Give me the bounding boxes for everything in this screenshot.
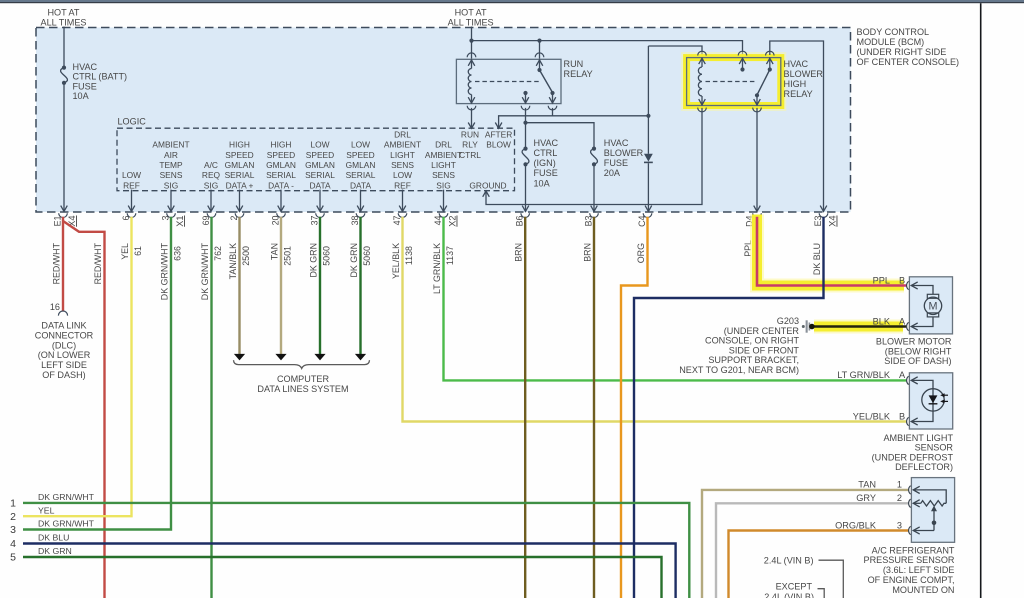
svg-text:ALL TIMES: ALL TIMES	[448, 17, 494, 27]
relay K2 fixed contact stub	[739, 58, 746, 72]
sensor: A/C refrigerant pressure sensor box	[911, 478, 954, 543]
wire: K2 switch output to pin D4	[756, 108, 758, 211]
svg-text:SIG: SIG	[436, 180, 450, 190]
svg-text:SPEED: SPEED	[225, 150, 253, 160]
svg-text:TAN: TAN	[270, 243, 280, 260]
svg-text:BLOW: BLOW	[486, 140, 511, 150]
label: EXCEPT 2.4L (VIN B) variant tag	[764, 581, 824, 598]
svg-text:OF DASH): OF DASH)	[42, 370, 85, 380]
diode CR1	[644, 154, 653, 163]
svg-text:AMBIENT: AMBIENT	[152, 140, 189, 150]
svg-text:(BELOW RIGHT: (BELOW RIGHT	[885, 346, 952, 356]
pin B6 at BCM connector	[515, 213, 530, 226]
svg-text:A: A	[899, 316, 906, 326]
wire: TAN to pressure sensor pin 1	[702, 490, 908, 598]
pin B3 at BCM connector	[583, 213, 598, 226]
pin 38 at BCM connector	[350, 213, 365, 225]
svg-text:B: B	[899, 411, 905, 421]
connector arcs at K2 terminals	[698, 51, 774, 112]
pin E1 (X4) at BCM connector	[52, 213, 77, 227]
svg-text:DRL: DRL	[435, 140, 452, 150]
svg-text:2.4L (VIN B): 2.4L (VIN B)	[764, 592, 814, 598]
svg-text:LIGHT: LIGHT	[431, 160, 456, 170]
wire: logic output stub	[402, 190, 404, 211]
svg-text:SENS: SENS	[432, 170, 455, 180]
node: HOT AT ALL TIMES (relay feed)	[448, 7, 494, 27]
svg-text:BODY CONTROL: BODY CONTROL	[857, 27, 930, 37]
svg-text:DK GRN/WHT: DK GRN/WHT	[38, 519, 95, 529]
page edge rule (right)	[980, 3, 982, 598]
fuse: HVAC CTRL (BATT) FUSE 10A	[61, 66, 68, 86]
wire: relay feed vertical into RUN RELAY coil	[471, 27, 473, 59]
svg-text:HVAC: HVAC	[73, 62, 98, 72]
svg-text:SUPPORT BRACKET,: SUPPORT BRACKET,	[708, 355, 799, 365]
svg-text:DK BLU: DK BLU	[812, 243, 822, 275]
svg-text:762: 762	[213, 246, 223, 261]
svg-text:SPEED: SPEED	[306, 150, 334, 160]
logic pin label: DRL AMB LIGHT SENS SIG	[425, 140, 462, 191]
svg-text:LOGIC: LOGIC	[118, 117, 147, 127]
ambient light sensor pin B	[853, 411, 933, 426]
svg-text:GMLAN: GMLAN	[225, 160, 255, 170]
wire: RUN RELAY coil low side to LOGIC RUN RLY CTRL	[471, 108, 473, 128]
pin D4 at BCM connector	[745, 213, 762, 227]
svg-text:AFTER: AFTER	[485, 129, 512, 139]
svg-text:AMBIENT: AMBIENT	[384, 140, 421, 150]
label: wire TAN circuit 2501	[270, 243, 293, 266]
junction: feed split at coil	[469, 39, 473, 43]
svg-text:20A: 20A	[604, 168, 621, 178]
svg-text:DATA LINES SYSTEM: DATA LINES SYSTEM	[257, 384, 348, 394]
svg-text:PRESSURE SENSOR: PRESSURE SENSOR	[864, 555, 955, 565]
module: BODY CONTROL MODULE (BCM) dashed outline	[36, 28, 851, 213]
svg-text:ORG/BLK: ORG/BLK	[835, 520, 877, 530]
svg-text:SIDE OF FRONT: SIDE OF FRONT	[729, 345, 800, 355]
label: BLOWER MOTOR location	[876, 337, 952, 367]
relay K2 coil	[698, 58, 705, 106]
pressure sensor wiper arrow	[931, 506, 937, 531]
highlight: yellow marker along BLK ground wire	[814, 320, 903, 334]
wire: LT GRN/BLK 1137 pin 44 to ambient light sensor pin A	[444, 217, 907, 381]
wire: feed drop to RUN RELAY switch	[539, 41, 541, 59]
label: wire LT GRN/BLK circuit 1137	[432, 243, 455, 294]
wire: logic output stub	[170, 190, 172, 211]
label: HVAC BLOWER HIGH RELAY	[784, 59, 824, 99]
wire: DK BLU pin E3 to bottom of page	[634, 217, 824, 598]
svg-text:HOT AT: HOT AT	[47, 7, 79, 17]
svg-text:DK GRN: DK GRN	[38, 546, 72, 556]
svg-text:61: 61	[133, 246, 143, 256]
svg-text:REF: REF	[123, 180, 140, 190]
svg-text:3: 3	[10, 524, 16, 536]
svg-text:2500: 2500	[241, 246, 251, 266]
svg-text:E1: E1	[52, 215, 62, 226]
pin 3 (X1) at BCM connector	[160, 213, 185, 227]
wire: DK GRN/WHT 762 pin 69 to bottom of page	[210, 217, 212, 598]
label: wire ORG	[636, 243, 646, 263]
label: HVAC BLOWER FUSE 20A	[604, 138, 644, 178]
svg-text:NEXT TO G201, NEAR BCM): NEXT TO G201, NEAR BCM)	[679, 365, 799, 375]
wire: blower fuse output to pin B3	[593, 166, 595, 210]
svg-text:69: 69	[201, 215, 211, 225]
svg-text:CTRL: CTRL	[459, 150, 481, 160]
svg-text:X4: X4	[828, 216, 838, 227]
connector: DLC pin 16	[50, 302, 68, 316]
logic pin label: RUN RLY CTRL	[459, 129, 481, 159]
highlight: yellow marker around HVAC BLOWER HIGH RELAY	[687, 58, 781, 106]
label: wire DK GRN/WHT circuit 636	[160, 242, 183, 300]
svg-text:636: 636	[173, 246, 183, 261]
svg-text:RELAY: RELAY	[564, 69, 593, 79]
svg-text:TAN/BLK: TAN/BLK	[228, 243, 238, 279]
motor B1: blower motor box	[909, 277, 952, 334]
svg-text:(IGN): (IGN)	[534, 158, 556, 168]
svg-text:DATA: DATA	[350, 180, 372, 190]
svg-text:LOW: LOW	[310, 140, 329, 150]
svg-text:RLY: RLY	[462, 140, 478, 150]
logic pin label: HS GMLAN DATA +	[225, 140, 255, 191]
pin 2 at BCM connector	[229, 213, 244, 220]
svg-text:B3: B3	[583, 215, 593, 226]
svg-text:X2: X2	[448, 216, 458, 227]
svg-text:4: 4	[10, 538, 16, 550]
svg-text:REF: REF	[394, 180, 411, 190]
svg-text:A/C: A/C	[204, 160, 218, 170]
wire: blower-high-relay coil feed / diode rail	[648, 46, 702, 57]
svg-text:37: 37	[309, 215, 319, 225]
label: G203 location note	[679, 316, 799, 375]
svg-text:G203: G203	[777, 316, 799, 326]
svg-text:RELAY: RELAY	[784, 89, 813, 99]
svg-text:LOW: LOW	[351, 140, 370, 150]
wire: fuse output down to pin E1	[63, 85, 65, 211]
svg-text:DK BLU: DK BLU	[38, 533, 69, 543]
svg-text:(DLC): (DLC)	[52, 340, 76, 350]
svg-text:(UNDER RIGHT SIDE: (UNDER RIGHT SIDE	[857, 47, 947, 57]
svg-text:LEFT SIDE: LEFT SIDE	[41, 360, 87, 370]
wire: feed bus to HVAC BLOWER HIGH RELAY contact	[472, 41, 743, 57]
wire: logic output stub	[319, 190, 321, 211]
wire: TAN 2501 pin 20 to data lines	[280, 217, 282, 354]
svg-text:A/C REFRIGERANT: A/C REFRIGERANT	[872, 545, 955, 555]
logic pin label: LS GMLAN DATA	[305, 140, 335, 191]
svg-text:2501: 2501	[283, 246, 293, 266]
svg-text:ORG: ORG	[636, 243, 646, 263]
ambient light sensor pin A	[837, 370, 933, 389]
svg-text:1: 1	[897, 480, 902, 490]
svg-text:DK GRN/WHT: DK GRN/WHT	[200, 242, 210, 300]
svg-text:HIGH: HIGH	[229, 140, 250, 150]
label: wire BRN	[583, 243, 593, 262]
wire: diode cathode to pin C4	[647, 163, 649, 210]
label: A/C REFRIGERANT PRESSURE SENSOR location	[864, 545, 955, 595]
logic pin label: DRL AMB LIGHT SENS LOW REF	[384, 129, 421, 190]
svg-text:1: 1	[10, 498, 16, 510]
logic pin label: LS GMLAN DATA 2	[346, 140, 376, 191]
fuse: HVAC CTRL (IGN) FUSE 10A	[522, 147, 529, 167]
svg-text:5: 5	[10, 552, 16, 564]
svg-text:GRY: GRY	[856, 493, 876, 503]
svg-text:DATA +: DATA +	[226, 180, 254, 190]
svg-text:DATA: DATA	[309, 180, 331, 190]
svg-text:BLK: BLK	[873, 316, 891, 326]
svg-text:5060: 5060	[362, 246, 372, 266]
blower motor pin A	[873, 316, 933, 330]
svg-text:M: M	[929, 301, 938, 313]
svg-text:TAN: TAN	[858, 480, 876, 490]
node 2: connector wire YEL	[10, 505, 54, 522]
svg-text:OF ENGINE COMPT,: OF ENGINE COMPT,	[868, 575, 955, 585]
label: wire BRN	[514, 243, 524, 262]
wire: RUN RELAY second output stub	[552, 108, 554, 116]
svg-text:CTRL (BATT): CTRL (BATT)	[73, 72, 128, 82]
logic pin label: HS GMLAN DATA -	[266, 140, 296, 191]
svg-text:HIGH: HIGH	[784, 79, 807, 89]
svg-text:E3: E3	[813, 215, 823, 226]
svg-text:MOUNTED ON: MOUNTED ON	[892, 585, 954, 595]
svg-text:FUSE: FUSE	[604, 158, 628, 168]
pin 37 at BCM connector	[309, 213, 324, 225]
pressure sensor pin 3	[835, 520, 934, 534]
label: 2.4L (VIN B) variant tag	[764, 555, 844, 598]
svg-text:YEL: YEL	[120, 243, 130, 260]
wire: DK GRN 5060 pin 38 to data lines	[359, 217, 361, 354]
svg-text:BLOWER: BLOWER	[784, 69, 824, 79]
svg-text:LOW: LOW	[393, 170, 412, 180]
label: BCM name	[857, 27, 960, 67]
label: wire YEL/BLK circuit 1138	[391, 243, 414, 279]
svg-text:HOT AT: HOT AT	[455, 7, 487, 17]
svg-text:LIGHT: LIGHT	[390, 150, 415, 160]
svg-text:3: 3	[897, 520, 902, 530]
svg-text:BRN: BRN	[583, 243, 593, 262]
svg-text:GROUND: GROUND	[469, 180, 506, 190]
wire: K2 switch common up-and-over to pin E3	[770, 41, 824, 211]
svg-text:PPL: PPL	[873, 275, 890, 285]
brace: computer data lines system	[234, 360, 370, 368]
svg-text:GMLAN: GMLAN	[346, 160, 376, 170]
wire: RUN RELAY output to fuses (ignition feed)	[525, 108, 527, 147]
label: wire DK GRN/WHT circuit 762	[200, 242, 223, 300]
svg-text:GMLAN: GMLAN	[305, 160, 335, 170]
relay K2 switch	[754, 58, 773, 106]
wire: logic output stub	[210, 190, 212, 211]
photodiode symbol	[922, 389, 948, 411]
svg-text:REQ: REQ	[202, 170, 221, 180]
svg-text:5060: 5060	[322, 246, 332, 266]
svg-text:HIGH: HIGH	[271, 140, 292, 150]
logic pin label: GROUND	[469, 180, 506, 190]
svg-text:TEMP: TEMP	[159, 160, 183, 170]
wire: BRN pin B3 to bottom of page	[593, 217, 595, 598]
wire: IGN fuse output to pin B6	[525, 166, 527, 210]
pin 20 at BCM connector	[270, 213, 285, 225]
svg-text:AMBIENT: AMBIENT	[425, 150, 462, 160]
svg-text:FUSE: FUSE	[73, 81, 97, 91]
svg-text:1138: 1138	[404, 246, 414, 265]
svg-text:DATA -: DATA -	[268, 180, 294, 190]
node: HOT AT ALL TIMES (battery feed, left)	[41, 7, 87, 27]
svg-text:(UNDER CENTER: (UNDER CENTER	[724, 326, 800, 336]
svg-text:ALL TIMES: ALL TIMES	[41, 17, 87, 27]
wire: ORG pin C4 to bottom of page	[621, 217, 648, 598]
wire: after-blow control rail	[499, 116, 649, 128]
top window border bar	[0, 0, 1024, 3]
svg-text:SPEED: SPEED	[346, 150, 374, 160]
svg-text:47: 47	[392, 215, 402, 225]
node 1: connector wire DK GRN/WHT	[10, 492, 689, 598]
svg-text:2: 2	[229, 215, 239, 220]
label: HVAC CTRL (IGN) FUSE 10A	[534, 138, 559, 188]
pressure sensor pin 1	[858, 480, 946, 504]
svg-text:RED/WHT: RED/WHT	[52, 242, 62, 284]
svg-text:SERIAL: SERIAL	[266, 170, 296, 180]
pin C4 at BCM connector	[637, 213, 652, 227]
relay K1 armature linkage (dashed)	[475, 81, 540, 83]
svg-text:AIR: AIR	[164, 150, 178, 160]
wire: DK GRN/WHT 636 pin 3 down to connector wire 3	[23, 217, 171, 530]
svg-text:HVAC: HVAC	[534, 138, 559, 148]
svg-text:COMPUTER: COMPUTER	[277, 374, 329, 384]
svg-text:YEL/BLK: YEL/BLK	[391, 243, 401, 279]
pin 47 at BCM connector	[392, 213, 407, 225]
svg-text:2: 2	[10, 511, 16, 523]
svg-text:C4: C4	[637, 215, 647, 226]
svg-text:(3.6L: LEFT SIDE: (3.6L: LEFT SIDE	[883, 565, 955, 575]
wire: PPL pin D4 to blower motor pin B (highlighted)	[757, 217, 906, 286]
svg-text:B: B	[899, 275, 905, 285]
label: wire RED/WHT	[52, 242, 62, 284]
svg-text:HVAC: HVAC	[784, 59, 809, 69]
svg-text:SERIAL: SERIAL	[346, 170, 376, 180]
svg-text:RUN: RUN	[564, 59, 584, 69]
svg-text:SIG: SIG	[164, 180, 178, 190]
wire: logic output stub	[280, 190, 282, 211]
svg-text:BRN: BRN	[514, 243, 524, 262]
node 5: connector wire DK GRN	[10, 546, 661, 598]
logic pin label: AFTER BLOW	[485, 129, 512, 149]
label: COMPUTER DATA LINES SYSTEM	[257, 374, 348, 394]
svg-text:CONNECTOR: CONNECTOR	[35, 330, 94, 340]
svg-text:OF CENTER CONSOLE): OF CENTER CONSOLE)	[857, 57, 960, 67]
wire: DK GRN 5060 pin 37 to data lines	[319, 217, 321, 354]
relay K1 switch	[522, 59, 556, 103]
logic block dashed outline	[117, 128, 515, 191]
wire: BLK blower motor pin A to ground G203 (highlighted)	[814, 325, 907, 328]
svg-text:SENS: SENS	[160, 170, 183, 180]
svg-text:SERIAL: SERIAL	[305, 170, 335, 180]
svg-text:20: 20	[270, 215, 280, 225]
svg-text:GMLAN: GMLAN	[266, 160, 296, 170]
connector arcs at RUN RELAY terminals	[467, 53, 557, 110]
wire: battery feed into HVAC CTRL (BATT) fuse	[63, 27, 65, 67]
svg-text:HVAC: HVAC	[604, 138, 629, 148]
svg-text:MODULE (BCM): MODULE (BCM)	[857, 37, 925, 47]
svg-text:CONSOLE, ON RIGHT: CONSOLE, ON RIGHT	[705, 336, 799, 346]
svg-text:BLOWER: BLOWER	[604, 148, 644, 158]
svg-text:SPEED: SPEED	[267, 150, 295, 160]
svg-text:B6: B6	[515, 215, 525, 226]
svg-text:10A: 10A	[73, 91, 90, 101]
label: wire PPL	[743, 240, 753, 257]
junction: ignition feed split	[523, 121, 527, 125]
logic pin label: LOW REF	[122, 170, 141, 190]
svg-text:(UNDER DEFROST: (UNDER DEFROST	[872, 452, 954, 462]
pin 69 at BCM connector	[201, 213, 216, 225]
wire: K2 coil low side to LOGIC GROUND	[486, 108, 702, 205]
wire: logic output stub	[239, 190, 241, 211]
ground G203 symbol	[802, 320, 815, 332]
wire: logic output stub	[360, 190, 362, 211]
svg-text:DRL: DRL	[394, 129, 411, 139]
label: wire DK GRN circuit 5060	[349, 243, 372, 278]
svg-text:SENS: SENS	[391, 160, 414, 170]
svg-text:16: 16	[50, 302, 60, 312]
svg-text:SIDE OF DASH): SIDE OF DASH)	[884, 356, 951, 366]
label: DATA LINK CONNECTOR (DLC)	[35, 321, 94, 381]
svg-text:RED/WHT: RED/WHT	[93, 242, 103, 284]
svg-text:A: A	[899, 370, 906, 380]
svg-text:SERIAL: SERIAL	[225, 170, 255, 180]
wire: BRN pin B6 to bottom of page	[524, 217, 526, 598]
wire: logic output stub	[131, 190, 133, 211]
relay K1 coil	[468, 59, 475, 103]
svg-text:LT GRN/BLK: LT GRN/BLK	[837, 370, 891, 380]
node 3: connector wire DK GRN/WHT	[10, 519, 95, 536]
relay K1: RUN RELAY box	[456, 59, 561, 103]
svg-text:LT GRN/BLK: LT GRN/BLK	[432, 243, 442, 294]
label: wire TAN/BLK circuit 2500	[228, 243, 251, 279]
label: HVAC CTRL (BATT) FUSE 10A	[73, 62, 128, 101]
svg-text:RUN: RUN	[461, 129, 479, 139]
pin 6 at BCM connector	[121, 213, 136, 220]
wire: YEL 61 pin 6 down to connector wire 2	[23, 217, 132, 516]
blower motor pin B	[873, 275, 933, 294]
svg-text:DATA LINK: DATA LINK	[41, 321, 86, 331]
fuse: HVAC BLOWER FUSE 20A	[591, 147, 598, 167]
label: wire DK GRN circuit 5060	[309, 243, 332, 278]
pressure sensor pin 2 + resistor element	[856, 493, 946, 507]
wire: branch to HVAC BLOWER FUSE	[526, 123, 595, 148]
wire: RED/WHT branch to bottom of page	[63, 221, 105, 598]
svg-text:3: 3	[160, 215, 170, 220]
label: RUN RELAY	[564, 59, 593, 79]
logic pin label: AMBIENT AIR TEMP SENS SIG	[152, 140, 189, 191]
svg-text:2: 2	[897, 493, 902, 503]
svg-text:10A: 10A	[534, 178, 551, 188]
svg-text:DK GRN/WHT: DK GRN/WHT	[38, 492, 95, 502]
motor symbol M	[924, 294, 941, 317]
svg-text:YEL/BLK: YEL/BLK	[853, 411, 891, 421]
svg-text:FUSE: FUSE	[534, 168, 558, 178]
wire: ORG/BLK to pressure sensor pin 3	[729, 531, 909, 598]
svg-text:DK GRN/WHT: DK GRN/WHT	[160, 242, 170, 300]
svg-text:SENSOR: SENSOR	[915, 443, 954, 453]
pin E3 (X4) at BCM connector	[813, 213, 838, 227]
label: wire RED/WHT	[93, 242, 103, 284]
wire: YEL/BLK 1138 pin 47 to ambient light sensor pin B	[403, 217, 907, 422]
pin 44 (X2) at BCM connector	[433, 213, 458, 227]
highlight: yellow marker along PPL blower feed	[757, 215, 904, 286]
svg-text:(ON LOWER: (ON LOWER	[38, 350, 91, 360]
node 4: connector wire DK BLU	[10, 533, 675, 598]
sensor: ambient light sensor box	[909, 373, 952, 429]
svg-text:DEFLECTOR): DEFLECTOR)	[895, 462, 953, 472]
label: wire DK BLU	[812, 243, 822, 275]
relay K2: HVAC BLOWER HIGH RELAY box	[687, 58, 781, 106]
svg-text:YEL: YEL	[38, 505, 55, 515]
svg-text:CTRL: CTRL	[534, 148, 558, 158]
